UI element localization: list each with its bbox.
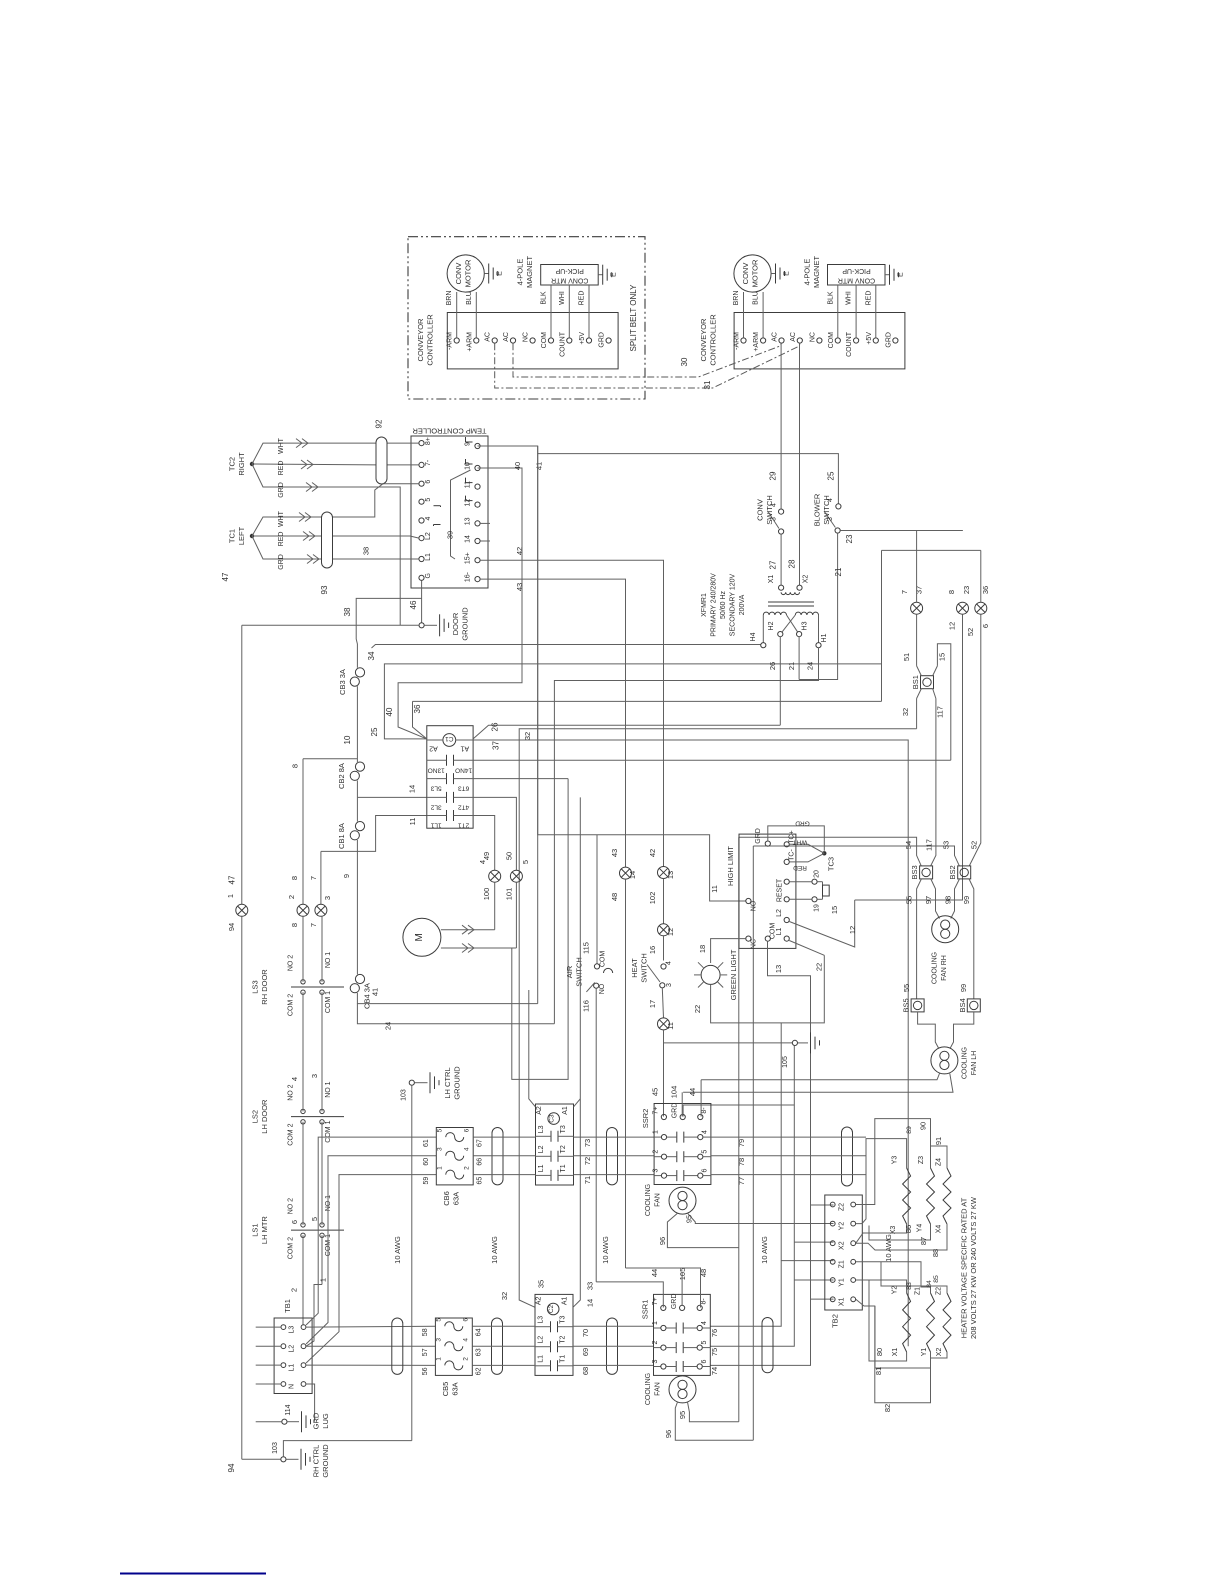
butt splice BS1	[921, 676, 934, 689]
svg-text:13: 13	[774, 965, 783, 973]
svg-text:L3: L3	[538, 1125, 545, 1133]
contactor C1 contact 13NO/14NO	[446, 755, 448, 766]
TC3 wiring	[768, 826, 825, 851]
svg-text:73: 73	[583, 1139, 592, 1147]
svg-text:3: 3	[436, 1147, 443, 1151]
contactor C3 box	[536, 1104, 574, 1185]
svg-text:92: 92	[375, 419, 384, 428]
svg-text:TC-: TC-	[789, 849, 796, 861]
svg-text:41: 41	[370, 988, 379, 996]
svg-text:2: 2	[287, 895, 296, 899]
svg-text:2T1: 2T1	[458, 822, 470, 829]
SSR2 GRD terminal	[680, 1114, 685, 1119]
wire 24 below CB4	[357, 1004, 554, 1024]
svg-text:L1: L1	[425, 553, 432, 561]
svg-text:48: 48	[610, 893, 619, 901]
wire 22 diag from L1	[789, 941, 824, 956]
wire 27	[780, 534, 782, 585]
svg-text:29: 29	[769, 471, 778, 480]
svg-text:98: 98	[944, 896, 953, 904]
svg-text:99: 99	[959, 984, 968, 992]
wire 12 from L2	[784, 917, 789, 922]
SSR1 fan legs	[688, 1402, 739, 1422]
svg-text:60: 60	[423, 1158, 430, 1166]
controller terminal NC	[817, 338, 822, 343]
wire 24 from H1	[554, 648, 818, 1024]
wire 54 horizontal	[739, 837, 921, 865]
svg-text:LS1: LS1	[251, 1223, 260, 1236]
svg-text:E: E	[784, 271, 791, 276]
svg-text:2: 2	[463, 1166, 470, 1170]
lamp 4	[489, 870, 501, 882]
wire 42 horizontal	[480, 560, 663, 866]
svg-text:AC: AC	[772, 332, 779, 342]
svg-text:76: 76	[710, 1329, 719, 1337]
svg-text:H2: H2	[768, 621, 775, 630]
svg-text:1: 1	[435, 1357, 442, 1361]
wire 117 BS1 to BS3	[931, 699, 936, 866]
svg-text:13NO: 13NO	[428, 766, 445, 773]
svg-text:46: 46	[409, 600, 418, 609]
svg-text:23: 23	[962, 586, 971, 594]
wire 18 NC to green light	[711, 939, 746, 963]
svg-text:8-: 8-	[701, 1107, 708, 1114]
oval CB6 out	[492, 1128, 503, 1185]
wire 104 branch to SSR2 GRD	[683, 1105, 794, 1117]
svg-text:6: 6	[702, 1169, 709, 1173]
wire 6T3 east	[473, 778, 568, 780]
wire 54 long vertical	[738, 837, 740, 1247]
motor wire upper with chevrons	[441, 929, 495, 931]
transformer X2 terminal	[797, 585, 802, 590]
svg-text:GROUND: GROUND	[453, 1066, 462, 1100]
wire 21 from H3	[798, 637, 800, 680]
solid state relay SSR2 box	[654, 1104, 711, 1185]
svg-text:38: 38	[343, 607, 352, 616]
svg-text:COM: COM	[541, 332, 548, 349]
svg-text:NC: NC	[809, 332, 816, 342]
svg-text:T2: T2	[560, 1145, 567, 1153]
wire 103 vertical	[411, 1085, 413, 1440]
svg-text:2: 2	[290, 1288, 299, 1292]
svg-text:TC1: TC1	[228, 529, 237, 543]
conveyor controller box	[734, 313, 905, 369]
wire 28	[799, 343, 801, 585]
svg-text:MAGNET: MAGNET	[812, 256, 821, 289]
contactor C1 box	[427, 726, 473, 829]
svg-text:34: 34	[367, 651, 376, 660]
heater resistor Y3-X3	[903, 1168, 911, 1224]
SSR1 GRD terminal	[680, 1305, 685, 1310]
svg-text:208 VOLTS 27 KW OR 240 VOLTS 2: 208 VOLTS 27 KW OR 240 VOLTS 27 KW	[969, 1196, 978, 1339]
svg-text:11: 11	[408, 818, 417, 826]
svg-text:GRD: GRD	[755, 828, 762, 844]
svg-text:32: 32	[523, 732, 532, 740]
svg-text:6: 6	[462, 1318, 469, 1322]
wire 36 horizontal upper	[882, 549, 981, 551]
svg-text:88: 88	[931, 1249, 940, 1257]
lamp 8	[957, 602, 969, 614]
svg-text:7: 7	[309, 923, 318, 927]
wires C3 to SSR2	[574, 1136, 655, 1138]
high limit NO	[746, 898, 751, 903]
svg-text:5: 5	[702, 1150, 709, 1154]
oval C3 out	[607, 1128, 618, 1185]
svg-text:TEMP CONTROLLER: TEMP CONTROLLER	[412, 427, 487, 436]
svg-text:68: 68	[581, 1367, 590, 1375]
svg-text:61: 61	[423, 1139, 430, 1147]
wire 8 LS chain segments	[302, 916, 304, 982]
svg-text:WHT: WHT	[278, 437, 285, 454]
svg-text:64: 64	[475, 1328, 482, 1336]
wire BRN	[743, 292, 745, 338]
wire 31 (AC dash-dot)	[495, 343, 800, 388]
contactor C1 coil stubs	[427, 739, 443, 741]
svg-text:COM 2: COM 2	[287, 1237, 294, 1259]
svg-text:9: 9	[342, 874, 351, 878]
wire 17	[662, 988, 663, 1018]
svg-text:1L1: 1L1	[430, 822, 441, 829]
svg-text:T1: T1	[560, 1355, 567, 1363]
wire 11 to NO	[538, 446, 746, 901]
wire BLK	[837, 285, 839, 338]
svg-text:COOLING: COOLING	[645, 1184, 652, 1216]
svg-text:81: 81	[874, 1367, 883, 1375]
contactor C2 pole L1/T1	[550, 1360, 552, 1371]
svg-text:RESET: RESET	[777, 878, 784, 902]
high limit TC+	[784, 842, 789, 847]
wire 44 into SSR1	[596, 1282, 663, 1308]
svg-text:GREEN LIGHT: GREEN LIGHT	[729, 949, 738, 1000]
svg-text:CONVEYOR: CONVEYOR	[699, 318, 708, 362]
svg-text:9: 9	[465, 442, 472, 446]
SSR2 pole 2/5	[654, 1156, 661, 1158]
svg-text:LUG: LUG	[321, 1413, 330, 1429]
pick-up ground E	[885, 274, 890, 276]
conv mtr pick-up box	[828, 265, 886, 286]
svg-text:102: 102	[648, 892, 657, 905]
svg-text:T2: T2	[560, 1336, 567, 1344]
temp controller pin 5	[419, 499, 424, 504]
svg-text:N: N	[289, 1384, 296, 1389]
wire 26 from C1 A1	[473, 725, 780, 739]
svg-text:62: 62	[475, 1367, 482, 1375]
svg-text:3: 3	[653, 1169, 660, 1173]
svg-text:78: 78	[737, 1158, 746, 1166]
TB1 L2 to CB6 feed	[306, 1156, 436, 1344]
wire RED	[588, 285, 590, 338]
svg-text:SPLIT BELT ONLY: SPLIT BELT ONLY	[629, 284, 638, 352]
svg-text:NO 2: NO 2	[287, 1084, 294, 1100]
svg-text:H4: H4	[750, 632, 757, 641]
wire 25 top run	[478, 446, 839, 504]
svg-text:14: 14	[628, 871, 637, 879]
svg-text:Z2: Z2	[936, 1287, 943, 1295]
svg-text:3: 3	[827, 517, 834, 521]
svg-text:12: 12	[848, 926, 857, 934]
SSR2 pole 1/4	[654, 1136, 661, 1138]
svg-text:RH CTRL: RH CTRL	[312, 1445, 321, 1478]
wire 105 into SSR1 GRD	[681, 1272, 683, 1306]
svg-text:117: 117	[924, 839, 933, 851]
svg-text:CB2 8A: CB2 8A	[337, 763, 346, 789]
TB2 terminal X1	[830, 1297, 835, 1302]
svg-text:7: 7	[309, 876, 318, 880]
svg-text:TB1: TB1	[283, 1299, 292, 1313]
wire 22 green loop	[711, 955, 825, 1023]
svg-text:22: 22	[815, 963, 824, 971]
svg-text:SSR1: SSR1	[641, 1300, 650, 1320]
controller terminal COM	[548, 338, 553, 343]
svg-text:37: 37	[915, 586, 924, 594]
svg-text:87: 87	[919, 1237, 928, 1245]
svg-text:116: 116	[582, 1000, 591, 1012]
wire 25/36 feeder vertical	[881, 550, 883, 701]
svg-text:BLU: BLU	[466, 291, 473, 305]
svg-text:Y2: Y2	[891, 1286, 898, 1295]
svg-text:GRD: GRD	[671, 1294, 678, 1310]
air switch feed	[596, 835, 598, 964]
svg-text:4: 4	[701, 1321, 708, 1325]
wire branch to TB2 Y1	[794, 1279, 833, 1281]
terminal H3	[797, 632, 802, 637]
terminal block TB1	[274, 1318, 312, 1394]
svg-text:39: 39	[446, 531, 455, 539]
svg-text:90: 90	[919, 1122, 928, 1130]
svg-text:CB5: CB5	[441, 1382, 450, 1397]
TB1 N wire	[306, 1384, 315, 1422]
circuit breaker CB2 8A	[355, 762, 364, 771]
svg-text:14: 14	[408, 785, 417, 793]
svg-text:GRD: GRD	[795, 820, 810, 827]
svg-text:RED: RED	[278, 532, 285, 547]
svg-text:63A: 63A	[451, 1192, 460, 1205]
svg-text:E: E	[898, 272, 905, 277]
circuit breaker CB5	[435, 1318, 472, 1375]
wire 46	[421, 580, 423, 622]
svg-text:2: 2	[462, 1357, 469, 1361]
svg-text:8: 8	[947, 590, 956, 594]
svg-text:10 AWG: 10 AWG	[760, 1236, 769, 1264]
wire 13 branch to TB2 Z2	[811, 1204, 834, 1206]
RH ctrl ground symbol	[286, 1458, 299, 1460]
svg-text:SWITCH: SWITCH	[640, 953, 649, 983]
pin 14 stub	[480, 540, 490, 542]
wire 10	[356, 686, 358, 762]
svg-text:8: 8	[290, 923, 299, 927]
svg-text:NO 1: NO 1	[325, 952, 332, 968]
svg-text:Z3: Z3	[918, 1156, 925, 1164]
svg-text:4: 4	[463, 1147, 470, 1151]
svg-text:21: 21	[834, 567, 843, 576]
wire 44 into SSR2 8-	[700, 1080, 702, 1117]
svg-text:19: 19	[814, 904, 821, 912]
svg-text:97: 97	[924, 896, 933, 904]
svg-text:FAN RH: FAN RH	[941, 955, 948, 981]
TC2 RED wire	[252, 463, 376, 466]
svg-text:5: 5	[435, 1318, 442, 1322]
svg-text:NC: NC	[523, 332, 530, 342]
controller terminal -ARM	[741, 338, 746, 343]
wire lamp6 top	[980, 550, 982, 602]
svg-text:94: 94	[227, 1463, 236, 1472]
svg-text:BS4: BS4	[958, 998, 967, 1012]
svg-text:52: 52	[969, 841, 978, 849]
wire RED	[875, 285, 877, 338]
svg-text:100: 100	[482, 888, 491, 901]
wire 23	[840, 530, 962, 532]
temp controller box	[411, 436, 488, 588]
TB1 terminal L1	[281, 1363, 286, 1368]
svg-text:RED: RED	[579, 291, 586, 306]
svg-text:CONTROLLER: CONTROLLER	[709, 314, 718, 366]
svg-text:CONV: CONV	[454, 263, 463, 285]
svg-text:GROUND: GROUND	[321, 1444, 330, 1478]
high limit TC-	[784, 859, 789, 864]
controller terminal NC	[530, 338, 535, 343]
svg-text:MAGNET: MAGNET	[525, 256, 534, 289]
TC2 GRD wire	[252, 464, 400, 625]
wire 30 (AC dash-dot)	[513, 343, 782, 377]
svg-text:WHI: WHI	[559, 291, 566, 305]
svg-text:3: 3	[435, 1338, 442, 1342]
svg-text:AC: AC	[790, 332, 797, 342]
temp controller internal contacts	[466, 441, 473, 443]
svg-text:HEAT: HEAT	[630, 958, 639, 978]
svg-text:BRN: BRN	[733, 291, 740, 306]
svg-text:L3: L3	[289, 1326, 296, 1334]
wire 54-96 vertical continues	[738, 1248, 740, 1422]
lamp 1	[236, 904, 248, 916]
svg-text:+5V: +5V	[866, 332, 873, 345]
air switch	[594, 964, 599, 969]
svg-text:10 AWG: 10 AWG	[490, 1236, 499, 1264]
svg-text:6: 6	[463, 1128, 470, 1132]
svg-text:Z1: Z1	[915, 1287, 922, 1295]
temp controller internal wire 39	[451, 470, 471, 559]
svg-text:COM 2: COM 2	[287, 1123, 294, 1145]
svg-text:COM: COM	[828, 332, 835, 349]
svg-text:10 AWG: 10 AWG	[601, 1236, 610, 1264]
RH ctrl ground	[281, 1457, 286, 1462]
heater resistor Y2-X1	[903, 1293, 911, 1352]
svg-text:6: 6	[701, 1359, 708, 1363]
svg-text:85: 85	[933, 1275, 940, 1283]
svg-text:1: 1	[653, 1130, 660, 1134]
svg-text:105: 105	[782, 1056, 789, 1068]
wire 87	[869, 1224, 931, 1240]
svg-text:L2: L2	[425, 532, 432, 540]
svg-text:99: 99	[962, 896, 971, 904]
svg-text:104: 104	[670, 1086, 679, 1099]
SSR1 pole 2/5	[654, 1347, 661, 1349]
svg-text:36: 36	[981, 586, 990, 594]
temp controller pin L1	[419, 556, 424, 561]
controller terminal +5V	[586, 338, 591, 343]
wire 48 into SSR1 8-	[626, 1268, 701, 1308]
controller terminal +ARM	[761, 338, 766, 343]
svg-text:93: 93	[320, 585, 329, 594]
lamp 3	[315, 904, 327, 916]
wire 100	[494, 882, 496, 930]
svg-text:SWITCH: SWITCH	[575, 957, 584, 987]
svg-text:40: 40	[385, 707, 394, 716]
wire 34	[372, 645, 761, 649]
lamp 6	[975, 602, 987, 614]
svg-text:NO: NO	[751, 900, 758, 911]
reset terminals	[784, 879, 789, 884]
svg-text:8+: 8+	[425, 437, 432, 445]
wire 52 lamp6 to BS2	[969, 614, 980, 865]
controller terminal GRD	[606, 338, 611, 343]
svg-text:24: 24	[383, 1022, 392, 1030]
svg-text:BS2: BS2	[948, 865, 957, 879]
wires C2 to SSR1	[573, 1325, 654, 1327]
heater resistor Z3-Y4	[927, 1168, 935, 1224]
SSR1 pole 3/6	[654, 1366, 661, 1368]
svg-text:56: 56	[422, 1367, 429, 1375]
svg-text:6: 6	[290, 1220, 299, 1224]
svg-text:8: 8	[290, 876, 299, 880]
svg-text:Z4: Z4	[936, 1158, 943, 1166]
wire 41 long vertical	[537, 454, 539, 1004]
svg-text:7: 7	[900, 590, 909, 594]
BS3 legs bottom	[917, 879, 922, 999]
svg-text:XFMR1: XFMR1	[701, 593, 708, 617]
svg-text:66: 66	[476, 1158, 483, 1166]
controller terminal AC	[779, 338, 784, 343]
svg-text:RED: RED	[793, 864, 807, 871]
svg-text:L2: L2	[289, 1345, 296, 1353]
svg-text:4: 4	[462, 1338, 469, 1342]
svg-text:84: 84	[926, 1280, 933, 1288]
svg-text:NO 2: NO 2	[287, 955, 294, 971]
svg-text:11: 11	[710, 885, 719, 893]
svg-text:X2: X2	[839, 1241, 846, 1250]
temp controller pin 14	[475, 538, 480, 543]
svg-text:74: 74	[710, 1367, 719, 1375]
ground lug	[282, 1419, 287, 1424]
heat switch	[661, 964, 666, 969]
temp controller pin 11	[475, 484, 480, 489]
fan LH leg right wire 104	[683, 1074, 953, 1093]
svg-text:8-: 8-	[701, 1298, 708, 1305]
svg-text:21: 21	[787, 662, 796, 670]
svg-text:L2: L2	[538, 1145, 545, 1153]
contactor C2 box	[535, 1294, 573, 1375]
svg-text:T1: T1	[560, 1164, 567, 1172]
svg-text:Y1: Y1	[921, 1348, 928, 1357]
svg-text:C2: C2	[548, 1304, 555, 1313]
svg-text:Y1: Y1	[839, 1278, 846, 1287]
svg-text:GROUND: GROUND	[461, 607, 470, 641]
wire 84	[856, 1262, 931, 1293]
svg-text:CB3 3A: CB3 3A	[338, 669, 347, 695]
conv motor circle	[447, 255, 484, 292]
svg-text:LH MTR: LH MTR	[260, 1216, 269, 1245]
conv motor ground E	[484, 273, 488, 275]
svg-text:18: 18	[698, 945, 707, 953]
svg-text:-ARM: -ARM	[447, 332, 454, 350]
wire 102	[663, 879, 665, 924]
svg-text:WHT: WHT	[278, 510, 285, 527]
connector oval 92	[376, 437, 387, 484]
svg-text:3: 3	[323, 896, 332, 900]
svg-text:42: 42	[648, 849, 657, 857]
svg-text:14NO: 14NO	[455, 766, 472, 773]
controller terminal COUNT	[567, 338, 572, 343]
svg-text:47: 47	[221, 572, 230, 581]
